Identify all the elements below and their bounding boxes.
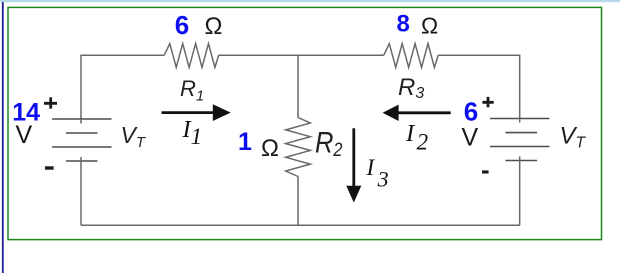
- battery V_T right: plate 4 short: [506, 160, 538, 162]
- wire: middle branch bottom: [297, 177, 299, 226]
- battery V_T left: plate 2 short: [66, 132, 98, 134]
- arrow I1 (current right): [162, 111, 216, 114]
- battery V_T right: plate 1 long: [490, 118, 550, 120]
- wire: middle node to R3: [298, 54, 384, 56]
- resistor R2 (1 ohm) vertical: [286, 118, 311, 177]
- label R2: [315, 125, 343, 160]
- battery V_T right: stub through plate 1: [519, 119, 521, 123]
- battery V_T left: plate 1 long: [52, 118, 112, 120]
- battery V_T left: plate 3 long: [52, 146, 112, 148]
- battery V_T left: plate 4 short: [66, 160, 98, 162]
- wire: left battery negative to bottom: [80, 157, 82, 225]
- wire: top left segment node A to R1: [81, 55, 164, 119]
- battery V_T right: plate 3 long: [490, 146, 550, 148]
- plus sign left battery: [44, 97, 57, 108]
- left dark blue line: [2, 2, 4, 273]
- svg-text:Ω: Ω: [421, 12, 438, 38]
- wire: R1 to middle node: [219, 54, 298, 56]
- resistor R3 (8 ohm): [384, 44, 438, 68]
- battery V_T left: stub through plate 1: [80, 119, 82, 124]
- minus sign right battery: [482, 170, 489, 173]
- wire: R3 to top right corner down to battery V_T right: [438, 55, 520, 118]
- svg-text:6: 6: [175, 10, 189, 40]
- plus sign right battery: [482, 97, 493, 107]
- top light blue band: [0, 0, 620, 2]
- minus sign left battery: [45, 166, 54, 169]
- svg-text:6: 6: [464, 97, 478, 127]
- wire: middle branch top: [297, 55, 299, 117]
- wire: right battery negative to bottom: [519, 157, 521, 226]
- battery V_T right: plate 2 short: [506, 132, 538, 134]
- wire: bottom rail: [81, 224, 520, 226]
- resistor R1 (6 ohm): [164, 44, 218, 68]
- svg-text:1: 1: [238, 128, 252, 156]
- svg-text:V: V: [16, 121, 33, 149]
- svg-text:Ω: Ω: [261, 135, 279, 162]
- svg-text:V: V: [462, 124, 479, 152]
- svg-text:Ω: Ω: [205, 13, 223, 40]
- arrow I2 (current left): [396, 111, 451, 114]
- arrow I3 (current down): [352, 128, 355, 188]
- svg-text:8: 8: [397, 10, 410, 37]
